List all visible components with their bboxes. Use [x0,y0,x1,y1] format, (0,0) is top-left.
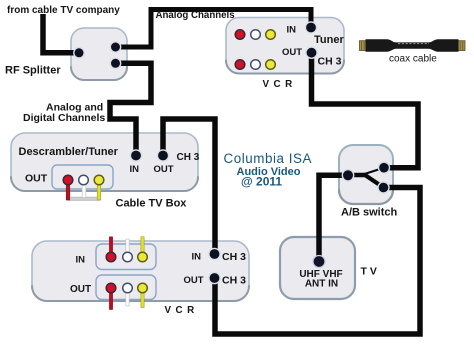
bottom VCR OUT CH3 port [209,272,220,283]
top VCR audio-in jack (white, row 1) [251,30,261,40]
wire: top VCR OUT (CH3) down and right to A/B switch input A [312,54,419,168]
top VCR IN port [305,22,316,33]
svg-text:coax cable: coax cable [389,54,437,65]
top VCR audio-in jack (red, row 1) [235,30,245,40]
descrambler audio out jack (red) [63,175,73,185]
svg-text:OUT: OUT [70,284,91,295]
svg-text:RF Splitter: RF Splitter [5,65,61,77]
A/B switch contact line to input A [365,168,385,174]
wire: descrambler OUT (CH3) to bottom VCR IN (CH3) [163,119,215,250]
descrambler white jack cable stub [82,182,86,198]
top VCR OUT port [306,47,317,58]
bottom VCR IN CH3 port [209,248,220,259]
descrambler jack panel [52,165,113,189]
bottom VCR input yellow cable stub [141,237,144,257]
svg-text:IN: IN [76,255,86,266]
top VCR box [226,18,344,74]
svg-text:IN: IN [130,164,140,175]
descrambler audio out jack (white) [79,175,89,185]
svg-text:CH 3: CH 3 [222,251,246,263]
bottom VCR box [32,241,249,301]
TV box [280,237,355,299]
svg-text:ANT IN: ANT IN [305,279,338,290]
svg-text:CH 3: CH 3 [177,152,200,163]
svg-text:OUT: OUT [25,173,48,185]
bottom VCR input red cable stub [109,237,112,257]
label: UHF VHF ANT IN [299,269,342,290]
svg-text:Columbia ISA: Columbia ISA [224,151,312,166]
svg-text:CH 3: CH 3 [318,56,342,68]
bottom VCR audio in jack (red) [106,252,116,262]
svg-text:OUT: OUT [154,164,174,175]
top VCR video-in jack (yellow, row 1) [266,30,276,40]
svg-text:from cable TV company: from cable TV company [7,5,120,16]
label: Analog and Digital Channels [23,102,105,125]
svg-text:OUT: OUT [282,47,302,58]
wire: splitter top output to top VCR tuner IN (analog channels) [116,10,311,48]
svg-text:@ 2011: @ 2011 [241,175,282,189]
bottom VCR audio out jack (white) [123,283,133,293]
bottom VCR audio out jack (red) [106,283,116,293]
bottom VCR output yellow cable stub [141,288,144,308]
A/B switch common line [348,173,365,178]
svg-text:A/B switch: A/B switch [341,207,398,219]
svg-text:CH 3: CH 3 [222,275,246,287]
svg-text:IN: IN [287,25,297,36]
descrambler yellow jack cable stub [97,182,101,200]
bottom VCR video out jack (yellow) [138,283,148,293]
bottom VCR input white cable stub [126,239,129,257]
svg-text:V C R: V C R [165,305,196,316]
svg-text:Analog Channels: Analog Channels [156,10,235,21]
descrambler video out jack (yellow) [94,175,104,185]
bottom VCR output white cable stub [126,288,129,306]
descrambler IN port [130,150,141,161]
svg-text:Descrambler/Tuner: Descrambler/Tuner [19,146,119,158]
A/B switch input port B [378,182,389,193]
descrambler red jack cable stub [66,182,70,200]
wire: A/B switch common to TV antenna input [319,175,345,258]
top VCR audio-out jack (red, row 2) [235,60,245,70]
A/B switch contact line to input B [365,175,384,188]
RF splitter box [71,28,127,80]
bottom VCR input jack panel [96,244,156,270]
bottom VCR output red cable stub [109,288,112,310]
svg-text:V C R: V C R [263,79,294,90]
svg-text:T V: T V [361,266,377,278]
descrambler / cable box [11,133,198,191]
wire: bottom VCR OUT (CH3) to A/B switch input B [215,188,420,335]
A/B switch common port [342,170,353,181]
A/B switch box [339,145,393,204]
bottom VCR output jack panel [96,275,156,300]
descrambler OUT port [157,150,168,161]
RF splitter input port [74,48,84,58]
coax cable pictogram [360,39,466,52]
bottom VCR audio in jack (white) [123,252,133,262]
RF splitter output port (bottom) [110,58,120,68]
wire: splitter bottom output to descrambler IN (analog and digital channels) [110,63,151,152]
top VCR video-out jack (yellow, row 2) [266,60,276,70]
svg-text:IN: IN [192,252,202,263]
wire from cable company feed into RF splitter input [43,14,75,53]
descrambler cable loop bar [67,197,101,200]
RF splitter output port (top) [110,42,120,52]
A/B switch input port A [379,162,390,173]
svg-text:Cable TV Box: Cable TV Box [116,198,188,210]
bottom VCR video in jack (yellow) [138,252,148,262]
svg-text:Tuner: Tuner [314,34,344,46]
TV antenna input port [313,256,325,268]
svg-text:Digital Channels: Digital Channels [23,112,105,124]
top VCR audio-out jack (white, row 2) [251,60,261,70]
svg-text:OUT: OUT [184,275,204,286]
